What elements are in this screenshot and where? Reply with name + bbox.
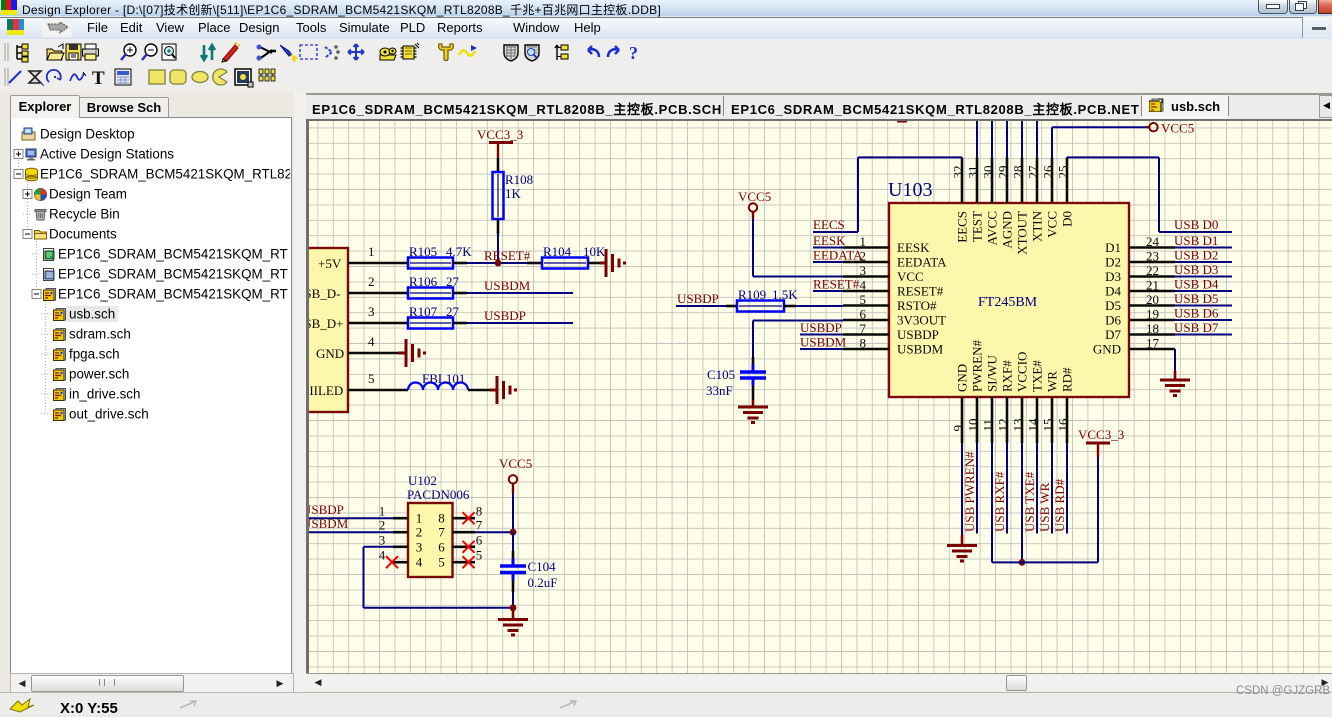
U102 pin 1 bbox=[393, 517, 408, 520]
svg-text:EP1C6_SDRAM_BCM5421SKQM_RTL820: EP1C6_SDRAM_BCM5421SKQM_RTL8208 bbox=[40, 167, 290, 182]
U103 pin 4 (RESET#) bbox=[843, 290, 889, 293]
svg-text:27: 27 bbox=[446, 274, 460, 289]
power VCC5 top right bbox=[1146, 126, 1150, 128]
svg-text:PWREN#: PWREN# bbox=[970, 340, 985, 393]
ground at R104 bbox=[600, 262, 606, 265]
svg-text:19: 19 bbox=[1146, 307, 1159, 322]
svg-text:U103: U103 bbox=[888, 179, 932, 201]
no-connect X pin8 bbox=[463, 512, 475, 524]
svg-text:Design Team: Design Team bbox=[49, 187, 127, 202]
wire R105 to R104 bbox=[467, 262, 529, 264]
svg-text:VCC5: VCC5 bbox=[1161, 121, 1194, 136]
svg-text:1: 1 bbox=[368, 244, 375, 259]
svg-text:30: 30 bbox=[981, 166, 996, 179]
wire USBDM bbox=[467, 292, 573, 294]
left panel tabs bbox=[10, 95, 80, 118]
svg-text:USB D2: USB D2 bbox=[1174, 248, 1218, 263]
svg-text:29: 29 bbox=[996, 166, 1011, 179]
svg-text:26: 26 bbox=[1041, 165, 1056, 179]
svg-text:22: 22 bbox=[1146, 263, 1159, 278]
wire R104 to ground bbox=[588, 262, 600, 265]
svg-text:USB RXF#: USB RXF# bbox=[992, 471, 1007, 532]
U103 top pin 28 (XTOUT) bbox=[1021, 157, 1024, 203]
svg-text:USBDP: USBDP bbox=[484, 308, 526, 323]
svg-text:11: 11 bbox=[981, 419, 996, 432]
svg-text:in_drive.sch: in_drive.sch bbox=[69, 387, 140, 402]
svg-text:6: 6 bbox=[476, 532, 483, 547]
svg-text:RESET#: RESET# bbox=[813, 277, 860, 292]
pin R108 bottom bbox=[497, 219, 500, 234]
U103 pin 3 (VCC) bbox=[843, 275, 889, 278]
svg-text:RESET#: RESET# bbox=[897, 284, 944, 299]
svg-text:31: 31 bbox=[966, 166, 981, 179]
svg-text:0.2uF: 0.2uF bbox=[528, 575, 558, 590]
svg-text:5: 5 bbox=[368, 371, 375, 386]
svg-text:FBL101: FBL101 bbox=[422, 371, 465, 386]
menu bar bbox=[0, 17, 1332, 40]
resistor R105 bbox=[408, 258, 453, 269]
wire USB D6 bbox=[1175, 319, 1232, 321]
svg-text:Active Design Stations: Active Design Stations bbox=[40, 147, 174, 162]
junction U102 pin7 bbox=[510, 529, 517, 536]
svg-text:D5: D5 bbox=[1105, 298, 1121, 313]
inductor FBL101 bbox=[408, 383, 468, 390]
svg-text:VCC3_3: VCC3_3 bbox=[477, 127, 523, 142]
resistor R106 bbox=[408, 288, 453, 299]
wire USB D5 bbox=[1175, 305, 1232, 307]
no-connect X pin5 bbox=[463, 556, 475, 568]
svg-text:D6: D6 bbox=[1105, 313, 1121, 328]
resistor R109 bbox=[737, 301, 784, 312]
svg-text:GND: GND bbox=[316, 346, 344, 361]
svg-text:6: 6 bbox=[438, 539, 445, 554]
power VCC5 bottom bbox=[509, 475, 517, 483]
svg-text:Design Desktop: Design Desktop bbox=[40, 127, 135, 142]
wire USBDM to pin8 bbox=[800, 348, 843, 350]
U103 bottom pin 14 (TXE#) bbox=[1036, 397, 1039, 443]
U103 pin 6 (3V3OUT) bbox=[843, 319, 889, 322]
svg-text:RESET#: RESET# bbox=[484, 248, 531, 263]
U103 pin 24 (D1) bbox=[1129, 246, 1175, 249]
svg-text:USB D3: USB D3 bbox=[1174, 262, 1218, 277]
U103 pin 18 (D7) bbox=[1129, 333, 1175, 336]
svg-text:D2: D2 bbox=[1105, 255, 1121, 270]
status bar bbox=[0, 692, 1332, 715]
U102 pin 7 bbox=[453, 531, 476, 534]
svg-text:USBDP: USBDP bbox=[677, 291, 719, 306]
wire EEDATA bbox=[813, 261, 843, 263]
svg-text:4: 4 bbox=[860, 278, 867, 293]
no-connect X pin6 bbox=[463, 541, 475, 553]
svg-text:3V3OUT: 3V3OUT bbox=[897, 313, 946, 328]
svg-text:EECS: EECS bbox=[813, 217, 845, 232]
svg-text:6: 6 bbox=[860, 307, 867, 322]
wire USB D4 bbox=[1175, 290, 1232, 292]
svg-text:C105: C105 bbox=[707, 367, 735, 382]
wire pin11 SI/WU bbox=[991, 443, 993, 562]
svg-text:R107: R107 bbox=[409, 304, 438, 319]
main hscrollbar bbox=[306, 673, 1332, 691]
svg-text:27: 27 bbox=[1026, 165, 1041, 179]
svg-text:WR: WR bbox=[1045, 371, 1060, 392]
svg-text:1K: 1K bbox=[505, 186, 522, 201]
resistor R104 bbox=[542, 258, 588, 269]
pin C105 bottom bbox=[752, 386, 755, 401]
svg-text:AVCC: AVCC bbox=[985, 211, 1000, 245]
svg-text:3: 3 bbox=[860, 263, 867, 278]
svg-text:EP1C6_SDRAM_BCM5421SKQM_RT: EP1C6_SDRAM_BCM5421SKQM_RT bbox=[58, 267, 288, 282]
svg-text:EEDATA: EEDATA bbox=[897, 255, 947, 270]
pin C104 top bbox=[512, 551, 515, 559]
svg-text:D0: D0 bbox=[1060, 211, 1075, 227]
U103 top pin 26 (VCC) bbox=[1051, 157, 1054, 203]
wire USB D1 bbox=[1175, 247, 1232, 249]
wire pin13 VCCIO bbox=[1021, 443, 1023, 562]
connector pin 5 bbox=[348, 389, 408, 392]
svg-text:8: 8 bbox=[860, 336, 867, 351]
U102 pin 3 bbox=[393, 545, 408, 548]
title bar bbox=[0, 0, 1332, 16]
svg-text:16: 16 bbox=[1056, 418, 1071, 432]
ground at U102 bbox=[512, 608, 515, 620]
svg-text:7: 7 bbox=[860, 321, 867, 336]
svg-text:power.sch: power.sch bbox=[69, 367, 129, 382]
svg-text:TEST: TEST bbox=[970, 211, 985, 242]
stray mark bbox=[897, 120, 907, 123]
wire VCC5 down bbox=[752, 219, 754, 277]
wire FBL101 to ground bbox=[468, 389, 490, 392]
svg-text:VCC: VCC bbox=[1045, 211, 1060, 238]
svg-text:5: 5 bbox=[860, 292, 867, 307]
svg-text:4: 4 bbox=[368, 334, 375, 349]
ground at connector pin 4 bbox=[398, 352, 406, 355]
svg-text:18: 18 bbox=[1146, 321, 1159, 336]
svg-text:RSTO#: RSTO# bbox=[897, 298, 937, 313]
U103 pin 17 (GND) bbox=[1129, 348, 1175, 351]
junction VCCIO bus bbox=[1019, 559, 1026, 566]
svg-text:4.7K: 4.7K bbox=[446, 244, 472, 259]
connector pin 4 bbox=[348, 352, 398, 355]
U102 pin 2 bbox=[393, 531, 408, 534]
svg-text:AGND: AGND bbox=[1000, 211, 1015, 249]
svg-text:32: 32 bbox=[951, 166, 966, 179]
wire pin15 WR bbox=[1051, 443, 1053, 534]
svg-text:8: 8 bbox=[438, 511, 445, 526]
svg-text:+5V: +5V bbox=[318, 256, 342, 271]
svg-text:USBDM: USBDM bbox=[484, 278, 531, 293]
toolbars bbox=[0, 39, 1332, 92]
junction ground node bbox=[510, 604, 517, 611]
svg-text:8: 8 bbox=[476, 504, 483, 519]
svg-text:12: 12 bbox=[996, 419, 1011, 432]
power VCC3_3 bottom bbox=[1086, 442, 1110, 445]
svg-text:VCCIO: VCCIO bbox=[1015, 352, 1030, 392]
wire VCC5 down to junction bbox=[512, 493, 514, 532]
svg-text:PACDN006: PACDN006 bbox=[407, 487, 470, 502]
svg-text:Recycle Bin: Recycle Bin bbox=[49, 207, 120, 222]
svg-text:USB_D-: USB_D- bbox=[309, 286, 341, 301]
svg-text:GND: GND bbox=[955, 364, 970, 392]
svg-text:U102: U102 bbox=[408, 473, 437, 488]
svg-text:5: 5 bbox=[438, 555, 445, 570]
wire U102 pin7 to VCC5 bbox=[475, 531, 513, 533]
pin C105 top bbox=[752, 357, 755, 365]
svg-text:33nF: 33nF bbox=[706, 383, 733, 398]
svg-text:17: 17 bbox=[1146, 336, 1160, 351]
U103 pin 5 (RSTO#) bbox=[843, 304, 889, 307]
svg-text:IIILED: IIILED bbox=[309, 383, 343, 398]
svg-text:out_drive.sch: out_drive.sch bbox=[69, 407, 149, 422]
svg-text:USB D7: USB D7 bbox=[1174, 320, 1219, 335]
no-connect X pin4 bbox=[386, 556, 398, 568]
IC U102 body bbox=[408, 503, 453, 577]
window buttons bbox=[1258, 0, 1288, 14]
svg-text:USB TXE#: USB TXE# bbox=[1022, 471, 1037, 532]
U102 pin 6 bbox=[453, 545, 476, 548]
svg-text:USBDP: USBDP bbox=[897, 327, 939, 342]
svg-text:RXF#: RXF# bbox=[1000, 360, 1015, 392]
resistor R107 bbox=[408, 318, 453, 329]
svg-text:R106: R106 bbox=[409, 274, 438, 289]
power VCC5 mid bbox=[749, 203, 757, 211]
svg-text:EESK: EESK bbox=[897, 240, 930, 255]
svg-text:VCC: VCC bbox=[897, 269, 924, 284]
svg-text:USB D5: USB D5 bbox=[1174, 291, 1218, 306]
wire R108 to RESET# node bbox=[497, 234, 499, 263]
U103 bottom pin 15 (WR) bbox=[1051, 397, 1054, 443]
U103 top pin 27 (XTIN) bbox=[1036, 157, 1039, 203]
pin C104 bottom bbox=[512, 580, 515, 592]
bottom power bus bbox=[992, 561, 1098, 563]
svg-text:XTOUT: XTOUT bbox=[1015, 211, 1030, 255]
U103 bottom pin 16 (RD#) bbox=[1066, 397, 1069, 443]
U103 pin 23 (D2) bbox=[1129, 261, 1175, 264]
svg-text:USBDM: USBDM bbox=[309, 516, 349, 531]
svg-text:1: 1 bbox=[379, 504, 386, 519]
wire EECS bbox=[813, 231, 858, 233]
wire pin16 RD# bbox=[1066, 443, 1068, 534]
schematic svg placeholder bbox=[309, 121, 1332, 673]
left panel hscrollbar bbox=[10, 673, 294, 694]
svg-text:fpga.sch: fpga.sch bbox=[69, 347, 120, 362]
svg-text:23: 23 bbox=[1146, 249, 1159, 264]
wire stub R104 left bbox=[527, 262, 542, 265]
ground at pin17 bbox=[1174, 371, 1177, 381]
connector pin 3 bbox=[348, 322, 408, 325]
wire USBDP to pin7 bbox=[800, 334, 843, 336]
svg-text:R108: R108 bbox=[505, 172, 533, 187]
svg-text:5: 5 bbox=[476, 548, 483, 563]
U103 top pin 25 (D0) bbox=[1066, 157, 1069, 203]
svg-text:D1: D1 bbox=[1105, 240, 1121, 255]
svg-text:USB D4: USB D4 bbox=[1174, 277, 1219, 292]
svg-text:sdram.sch: sdram.sch bbox=[69, 327, 131, 342]
svg-text:EP1C6_SDRAM_BCM5421SKQM_RT: EP1C6_SDRAM_BCM5421SKQM_RT bbox=[58, 247, 288, 262]
svg-text:13: 13 bbox=[1011, 419, 1026, 432]
wire USB D2 bbox=[1175, 261, 1232, 263]
left panel tree box bbox=[10, 117, 292, 674]
svg-text:Documents: Documents bbox=[49, 227, 117, 242]
svg-text:R104: R104 bbox=[543, 244, 572, 259]
U103 bottom pin 12 (RXF#) bbox=[1006, 397, 1009, 443]
U103 pin 19 (D6) bbox=[1129, 319, 1175, 322]
pin R107 right bbox=[453, 322, 467, 325]
svg-text:USBDM: USBDM bbox=[897, 342, 944, 357]
wire EESK bbox=[813, 247, 843, 249]
wire pin10 PWREN# bbox=[976, 443, 978, 534]
U103 pin 20 (D5) bbox=[1129, 304, 1175, 307]
U102 pin 4 bbox=[393, 561, 408, 564]
U103 pin 7 (USBDP) bbox=[843, 333, 889, 336]
svg-text:7: 7 bbox=[438, 525, 445, 540]
svg-text:USBDM: USBDM bbox=[800, 335, 847, 350]
U102 pin 8 bbox=[453, 517, 476, 520]
svg-text:USBDP: USBDP bbox=[309, 502, 344, 517]
wire USB D3 bbox=[1175, 276, 1232, 278]
U103 pin 2 (EEDATA) bbox=[843, 261, 889, 264]
U103 pin 8 (USBDM) bbox=[843, 348, 889, 351]
svg-text:USB D6: USB D6 bbox=[1174, 306, 1219, 321]
pin R106 right bbox=[453, 292, 467, 295]
ground at C105 bbox=[752, 400, 755, 408]
svg-text:4: 4 bbox=[379, 548, 386, 563]
U103 pin 21 (D4) bbox=[1129, 290, 1175, 293]
svg-text:2: 2 bbox=[368, 274, 375, 289]
svg-text:VCC5: VCC5 bbox=[499, 456, 532, 471]
U103 bottom pin 13 (VCCIO) bbox=[1021, 397, 1024, 443]
main area tab bar bbox=[306, 93, 1332, 121]
svg-text:RD#: RD# bbox=[1060, 367, 1075, 392]
junction RESET# bbox=[495, 260, 502, 267]
U103 top pin 29 (AGND) bbox=[1006, 157, 1009, 203]
svg-text:EP1C6_SDRAM_BCM5421SKQM_RT: EP1C6_SDRAM_BCM5421SKQM_RT bbox=[58, 287, 288, 302]
wire USB D7 bbox=[1175, 334, 1232, 336]
connector pin 2 bbox=[348, 292, 408, 295]
resistor R108 bbox=[493, 172, 504, 219]
wire VCC to VCC5 (pin 26) bbox=[1051, 127, 1053, 157]
pin R109 left bbox=[726, 305, 737, 308]
svg-text:GND: GND bbox=[1093, 342, 1121, 357]
U103 bottom pin 11 (SI/WU) bbox=[991, 397, 994, 443]
svg-text:TXE#: TXE# bbox=[1030, 360, 1045, 392]
svg-text:usb.sch: usb.sch bbox=[69, 307, 115, 322]
svg-text:FT245BM: FT245BM bbox=[978, 295, 1038, 310]
svg-text:D3: D3 bbox=[1105, 269, 1121, 284]
connector J101 body bbox=[296, 248, 348, 412]
svg-text:D4: D4 bbox=[1105, 284, 1121, 299]
wire junction to C104 bbox=[512, 532, 514, 551]
capacitor C104 bbox=[500, 559, 526, 581]
svg-text:1.5K: 1.5K bbox=[772, 287, 798, 302]
wire VCC3_3 to R108 bbox=[497, 158, 500, 172]
svg-text:3: 3 bbox=[416, 539, 423, 554]
wire D0 (pin 25) bbox=[1067, 156, 1159, 158]
svg-text:25: 25 bbox=[1056, 166, 1071, 179]
svg-text:VCC3_3: VCC3_3 bbox=[1078, 427, 1124, 442]
app icon bbox=[1, 0, 17, 15]
svg-text:1: 1 bbox=[416, 511, 423, 526]
wire C104 to ground junction bbox=[512, 592, 514, 608]
wire USBDP bbox=[467, 322, 573, 324]
svg-text:20: 20 bbox=[1146, 292, 1159, 307]
svg-text:7: 7 bbox=[476, 518, 483, 533]
svg-text:4: 4 bbox=[416, 555, 423, 570]
svg-text:D7: D7 bbox=[1105, 327, 1121, 342]
svg-text:EEDATA: EEDATA bbox=[813, 248, 863, 263]
power VCC3_3 top bbox=[489, 141, 513, 144]
svg-text:3: 3 bbox=[368, 304, 375, 319]
wire USBDM to U102 pin2 bbox=[300, 531, 393, 533]
svg-text:14: 14 bbox=[1026, 418, 1041, 432]
schematic viewport border bbox=[306, 119, 1332, 673]
U103 pin 1 (EESK) bbox=[843, 246, 889, 249]
svg-text:9: 9 bbox=[951, 425, 966, 432]
wire RESET# to pin4 bbox=[813, 290, 843, 292]
U103 bottom pin 9 (GND) bbox=[961, 397, 964, 443]
U103 pin 22 (D3) bbox=[1129, 275, 1175, 278]
wire USBDP to U102 pin1 bbox=[300, 517, 393, 519]
wire 3V3OUT branch bbox=[753, 320, 843, 322]
svg-text:15: 15 bbox=[1041, 419, 1056, 432]
wire VCC3_3 to bus bbox=[1097, 457, 1099, 562]
svg-text:USB WR: USB WR bbox=[1037, 482, 1052, 532]
svg-text:10K: 10K bbox=[583, 244, 606, 259]
svg-text:10: 10 bbox=[966, 419, 981, 432]
wires to crystal (pins 31-27) bbox=[976, 121, 978, 157]
wire VCC5 to pin3 bbox=[753, 276, 843, 278]
wire GND pin17 bbox=[1174, 349, 1176, 371]
svg-text:USB PWREN#: USB PWREN# bbox=[962, 451, 977, 532]
svg-text:USB D0: USB D0 bbox=[1174, 217, 1218, 232]
svg-text:R105: R105 bbox=[409, 244, 437, 259]
svg-text:21: 21 bbox=[1146, 278, 1159, 293]
wire USBDP to R109 bbox=[676, 305, 726, 307]
wire pin9 GND bbox=[961, 443, 963, 535]
pin R105 right bbox=[453, 262, 467, 265]
svg-text:USB RD#: USB RD# bbox=[1052, 478, 1067, 532]
svg-text:28: 28 bbox=[1011, 166, 1026, 179]
U103 top pin 31 (TEST) bbox=[976, 157, 979, 203]
svg-text:SI/WU: SI/WU bbox=[985, 355, 1000, 392]
U103 top pin 32 (EECS) bbox=[961, 157, 964, 203]
wire pin14 TXE# bbox=[1036, 443, 1038, 534]
U103 top pin 30 (AVCC) bbox=[991, 157, 994, 203]
svg-text:EESK: EESK bbox=[813, 233, 846, 248]
svg-text:EECS: EECS bbox=[955, 211, 970, 243]
svg-text:USB_D+: USB_D+ bbox=[309, 316, 344, 331]
U102 pin 5 bbox=[453, 561, 476, 564]
schematic sheet background bbox=[309, 121, 1332, 673]
svg-text:XTIN: XTIN bbox=[1030, 210, 1045, 242]
svg-text:2: 2 bbox=[416, 525, 423, 540]
IC U103 body bbox=[889, 203, 1129, 397]
svg-text:24: 24 bbox=[1146, 234, 1160, 249]
capacitor C105 bbox=[740, 365, 766, 386]
wire U102 pin3 loop bbox=[364, 546, 394, 548]
svg-text:USBDP: USBDP bbox=[800, 320, 842, 335]
svg-text:VCC5: VCC5 bbox=[738, 189, 771, 204]
svg-text:USB D1: USB D1 bbox=[1174, 233, 1218, 248]
svg-text:T: T bbox=[92, 68, 105, 89]
ground at pin9 bbox=[961, 535, 964, 546]
wire R109 to pin5 bbox=[796, 305, 843, 307]
svg-text:?: ? bbox=[629, 43, 638, 63]
svg-text:27: 27 bbox=[446, 304, 460, 319]
ground at FBL101 bbox=[490, 389, 497, 392]
U103 bottom pin 10 (PWREN#) bbox=[976, 397, 979, 443]
svg-text:2: 2 bbox=[379, 518, 386, 533]
wire pin12 RXF# bbox=[1006, 443, 1008, 534]
